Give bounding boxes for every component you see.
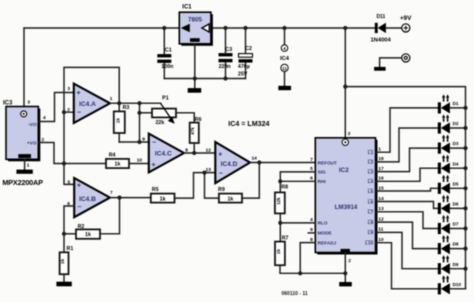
svg-text:220n: 220n — [219, 64, 231, 70]
svg-text:R1: R1 — [67, 246, 74, 252]
wire R4 to IC4.C pin 10 — [129, 163, 149, 165]
svg-text:R9: R9 — [218, 187, 225, 193]
svg-text:+VO: +VO — [27, 141, 37, 147]
svg-text:R5: R5 — [152, 187, 159, 193]
svg-text:D11: D11 — [376, 14, 385, 20]
svg-text:D3: D3 — [453, 141, 459, 146]
svg-text:RHI: RHI — [318, 179, 326, 184]
svg-text:D9: D9 — [453, 262, 459, 267]
ground at 0 terminal — [374, 67, 386, 71]
svg-text:RLO: RLO — [318, 221, 328, 226]
svg-text:D4: D4 — [453, 161, 459, 166]
svg-text:9: 9 — [142, 136, 145, 142]
resistor R9 — [205, 173, 243, 203]
wire IC4.B pin6 to R2/R1 node — [64, 206, 74, 234]
wire IC2 pin L9 to LED D9 cathode — [376, 232, 438, 268]
svg-text:IC4.D: IC4.D — [221, 161, 238, 168]
svg-text:R4: R4 — [109, 153, 116, 159]
wire D11 to +9V terminal — [386, 27, 402, 29]
wire R5 to IC4.D pin 13 — [175, 173, 216, 199]
LED D1 — [438, 94, 459, 113]
svg-text:IC1: IC1 — [182, 5, 192, 11]
svg-text:+: + — [218, 152, 222, 159]
wire IC1 ground stem — [194, 44, 196, 88]
svg-text:R3: R3 — [123, 105, 130, 111]
wire IC2 pin L1 to LED D1 cathode — [376, 108, 438, 152]
svg-text:D1: D1 — [453, 101, 459, 106]
wire LED D6 anode to rail — [450, 207, 466, 209]
svg-text:IC4.C: IC4.C — [155, 151, 172, 158]
wire IC2 pin L7 to LED D7 cathode — [376, 212, 438, 229]
svg-text:25V: 25V — [238, 71, 248, 77]
LED D10 — [438, 275, 462, 294]
wire LED D2 anode to rail — [450, 127, 466, 129]
svg-text:1k: 1k — [115, 118, 121, 124]
wire supply drop to IC2 pin 3 — [344, 28, 346, 138]
LED D7 — [438, 215, 459, 234]
svg-text:D2: D2 — [453, 121, 459, 126]
svg-text:12: 12 — [206, 148, 212, 154]
wire IC3 pin4 to IC4.A pin3 — [38, 93, 74, 122]
wire IC4.D output to IC2 REFOUT — [250, 162, 315, 164]
svg-text:1k: 1k — [227, 196, 233, 202]
svg-text:7805: 7805 — [188, 16, 203, 23]
svg-text:P1: P1 — [162, 96, 169, 102]
wire R7 bottom rail to IC2 ground stem — [280, 265, 345, 273]
svg-text:IC4.B: IC4.B — [79, 196, 96, 203]
wire drop to IC3 pin 3 — [23, 28, 25, 107]
resistor R3 — [114, 103, 130, 142]
svg-text:L9: L9 — [368, 230, 374, 235]
diode D11 1N4004 — [370, 14, 391, 43]
wire IC2 pin L6 to LED D6 cathode — [376, 202, 438, 209]
wire IC2 pin L4 to LED D4 cathode — [376, 168, 438, 181]
ground under IC3 — [16, 170, 32, 174]
wire IC3 pin2 staircase to R4 — [38, 143, 106, 164]
svg-text:14: 14 — [252, 156, 258, 162]
svg-text:IC4 = LM324: IC4 = LM324 — [228, 120, 269, 128]
LED D3 — [438, 135, 459, 154]
svg-text:1k: 1k — [115, 162, 121, 168]
svg-text:−: − — [152, 140, 156, 147]
wire LED D1 anode to rail — [450, 107, 466, 109]
wire P1 right to R6 — [176, 113, 194, 123]
svg-text:MPX2200AP: MPX2200AP — [2, 178, 43, 187]
svg-text:+: + — [152, 162, 156, 169]
svg-text:IC4: IC4 — [280, 56, 290, 62]
svg-text:C2: C2 — [245, 46, 252, 52]
IC4 supply pins 4 and 11 — [280, 28, 290, 86]
pressure sensor IC3 MPX2200AP — [6, 107, 40, 162]
op-amp IC4.B — [74, 178, 110, 217]
svg-text:1N4004: 1N4004 — [370, 37, 391, 43]
svg-text:L8: L8 — [368, 220, 374, 225]
svg-text:IC4.A: IC4.A — [79, 101, 96, 108]
svg-text:−: − — [219, 171, 223, 178]
svg-text:1k: 1k — [60, 259, 66, 265]
svg-text:REFOUT: REFOUT — [318, 160, 337, 165]
svg-text:L2: L2 — [368, 160, 374, 165]
svg-text:D7: D7 — [453, 222, 459, 227]
svg-text:47k: 47k — [190, 127, 195, 135]
resistor R2 — [64, 224, 100, 239]
pin 1 stem + label — [24, 159, 26, 169]
wire RLO node down to R7 — [279, 223, 281, 242]
svg-text:1k: 1k — [276, 249, 282, 255]
wire LED anode rail — [465, 108, 467, 289]
svg-text:R8: R8 — [281, 184, 288, 190]
wire IC2 pin L8 to LED D8 cathode — [376, 222, 438, 249]
svg-text:C3: C3 — [225, 47, 232, 53]
svg-text:D10: D10 — [453, 282, 462, 287]
svg-text:D6: D6 — [453, 202, 459, 207]
svg-text:SIG: SIG — [318, 170, 326, 175]
wire IC2 RLO — [280, 222, 315, 224]
svg-text:L5: L5 — [368, 189, 374, 194]
LED D9 — [438, 255, 459, 274]
wire LED D5 anode to rail — [450, 187, 466, 189]
svg-text:3: 3 — [348, 131, 351, 137]
svg-text:L1: L1 — [368, 150, 374, 155]
voltage regulator IC1 7805 — [179, 12, 213, 46]
wire node vertical (wiper/R3/pin9) — [139, 103, 141, 142]
svg-text:1k: 1k — [85, 232, 91, 238]
capacitor C1 100n — [157, 28, 173, 79]
wire decoupling bottom rail — [164, 78, 245, 80]
svg-text:+: + — [77, 182, 81, 189]
wire R6 bottom to IC4.C output — [193, 143, 195, 153]
svg-text:5: 5 — [68, 179, 71, 185]
potentiometer P1 22k — [152, 96, 176, 126]
svg-text:R2: R2 — [78, 224, 85, 230]
resistor R8 — [275, 184, 288, 213]
LED D4 — [438, 155, 459, 174]
wire IC4.A output — [110, 102, 161, 104]
svg-text:1: 1 — [110, 96, 113, 102]
resistor R4 — [106, 153, 129, 168]
wire LED D10 anode to rail — [450, 288, 466, 290]
wire IC2 RHI — [280, 180, 315, 182]
wire IC2 SIG to divider — [280, 172, 315, 193]
svg-text:L6: L6 — [368, 199, 374, 204]
ground under IC1 — [188, 88, 202, 93]
op-amp IC4.D — [215, 142, 250, 183]
svg-text:-VO: -VO — [28, 122, 37, 128]
wire LED D7 anode to rail — [450, 228, 466, 230]
svg-text:1k: 1k — [160, 196, 166, 202]
wire IC2 pin L3 to LED D3 cathode — [376, 148, 438, 172]
wire IC4.B output to R5 — [110, 197, 151, 199]
terminal +9V — [400, 15, 412, 32]
LED D8 — [438, 235, 459, 254]
terminal 0 — [380, 54, 410, 67]
op-amp IC4.C — [149, 134, 184, 173]
wire top supply rail left — [24, 27, 179, 29]
svg-text:2: 2 — [348, 258, 351, 264]
wire LED D9 anode to rail — [450, 268, 466, 270]
wire R8 bottom to RLO — [279, 213, 281, 223]
svg-text:−: − — [77, 109, 81, 116]
LED D5 — [438, 175, 459, 194]
svg-text:REFADJ: REFADJ — [318, 240, 337, 245]
svg-text:L4: L4 — [368, 179, 374, 184]
svg-text:11: 11 — [282, 66, 287, 71]
wire R2 right to output — [100, 198, 120, 234]
wire IC4.A feedback loop output to inverting input — [64, 67, 119, 112]
wire branch to LED anode rail — [345, 87, 465, 108]
svg-text:L10: L10 — [365, 241, 373, 246]
svg-text:470µ: 470µ — [238, 64, 250, 70]
svg-text:R7: R7 — [282, 235, 289, 241]
LED D6 — [438, 195, 459, 214]
capacitor C2 470u 25V electrolytic — [238, 28, 253, 79]
svg-text:10: 10 — [137, 158, 143, 164]
svg-text:LM3914: LM3914 — [335, 204, 358, 211]
ground under IC4 supply — [278, 86, 291, 90]
svg-text:L3: L3 — [368, 169, 374, 174]
wire LED D8 anode to rail — [450, 248, 466, 250]
capacitor C3 220n — [219, 28, 233, 79]
wire LED D3 anode to rail — [450, 147, 466, 149]
resistor R1 — [60, 234, 74, 282]
wire IC2 pin L10 to LED D10 cathode — [376, 243, 438, 289]
wire top supply rail right — [211, 27, 375, 29]
svg-text:L7: L7 — [368, 210, 374, 215]
wire IC2 REFADJ — [300, 243, 315, 274]
svg-text:MODE: MODE — [318, 231, 332, 236]
svg-text:R6: R6 — [195, 117, 202, 123]
resistor R5 — [151, 187, 175, 203]
wire IC2 pin L2 to LED D2 cathode — [376, 128, 438, 162]
ground under IC2 — [339, 282, 352, 286]
svg-text:−: − — [77, 204, 81, 211]
svg-text:7: 7 — [310, 157, 313, 163]
svg-text:3: 3 — [27, 100, 30, 106]
svg-text:7: 7 — [110, 190, 113, 196]
svg-text:D8: D8 — [453, 242, 459, 247]
resistor R7 — [275, 235, 289, 265]
wire R9 right up to output — [242, 163, 259, 199]
svg-text:IC3: IC3 — [3, 101, 13, 107]
wire IC4.C output to IC4.D pin 12 — [184, 152, 215, 154]
wire LED D4 anode to rail — [450, 167, 466, 169]
IC IC2 LM3914 — [315, 138, 377, 255]
op-amp IC4.A — [74, 84, 110, 123]
wire IC2 pin L5 to LED D5 cathode — [376, 188, 438, 191]
resistor R6 — [190, 117, 202, 143]
wire R3 bottom to IC4.C pin 9 — [119, 141, 149, 143]
svg-text:IC2: IC2 — [339, 167, 349, 174]
wire IC4.A pin2 down to node and IC4.B pin5 — [64, 112, 74, 184]
svg-text:060110 - 11: 060110 - 11 — [282, 291, 308, 297]
ground under R1 — [56, 282, 71, 287]
svg-text:3: 3 — [67, 86, 70, 92]
wire IC2 pin 2 ground stem — [344, 253, 346, 282]
LED D2 — [438, 114, 459, 133]
svg-text:22k: 22k — [155, 120, 164, 126]
wire P1 left terminal — [140, 112, 153, 114]
svg-text:C1: C1 — [165, 47, 172, 53]
svg-text:2: 2 — [67, 107, 70, 113]
svg-text:12k: 12k — [276, 197, 281, 205]
svg-text:+9V: +9V — [400, 15, 412, 22]
svg-text:D5: D5 — [453, 181, 459, 186]
IC2 MODE stub — [308, 232, 315, 234]
svg-text:1: 1 — [27, 163, 30, 169]
svg-text:4: 4 — [43, 115, 46, 121]
svg-text:+: + — [77, 90, 81, 97]
svg-text:100n: 100n — [161, 64, 173, 70]
